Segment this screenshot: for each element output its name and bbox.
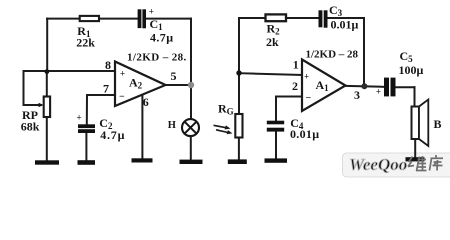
op-amp A2 triangle (115, 62, 166, 107)
node C junction dot (236, 70, 241, 75)
capacitor C5 plates (384, 78, 396, 97)
svg-text:100μ: 100μ (399, 63, 424, 77)
wire: pin 8 lead from node A to op-amp A2 (47, 70, 115, 72)
ground under C4 (265, 158, 288, 162)
wire: right section top rail segment A (239, 17, 266, 19)
speaker B cone (419, 100, 428, 147)
wire: node A down to RP top (46, 71, 48, 97)
wire: A1 output pin 3 to C5 (346, 85, 385, 88)
svg-text:0.01μ: 0.01μ (331, 18, 359, 32)
wire: pin 1 lead from node C to op-amp A1 (239, 73, 302, 75)
wire: top rail from C3 to right corner (328, 17, 365, 19)
wire: C2 bottom to ground (85, 133, 87, 160)
svg-text:0.01μ: 0.01μ (290, 127, 319, 141)
wire: top rail between R2 and C3 (286, 17, 319, 19)
ground under RG (228, 159, 247, 164)
svg-text:+: + (149, 6, 154, 16)
resistor R2 body (266, 14, 287, 21)
potentiometer RP body (44, 97, 50, 118)
resistor R1 body (80, 16, 99, 21)
wire: node B down to lamp H (190, 85, 192, 120)
wire: right vertical of feedback loop down to node B (190, 19, 192, 85)
photoresistor RG body (235, 114, 242, 138)
wire: top rail between R1 and C1 (99, 18, 138, 20)
wire: speaker bottom to ground (414, 139, 416, 158)
wire: pin 2 corner down to C4 (275, 97, 277, 121)
wire: RP wiper into box (24, 104, 42, 106)
wire: RG bottom to ground (238, 137, 240, 159)
wire: lamp H to ground (190, 136, 192, 160)
wire: corner down to speaker top (414, 87, 416, 106)
light arrow 1 from lamp to RG (214, 125, 231, 129)
wire: left vertical from top rail to node A (46, 19, 48, 71)
wire: top rail from C1 to right corner (146, 18, 191, 20)
wire: RP wiper vertical (23, 71, 25, 105)
wire: RP bottom to ground (46, 117, 48, 160)
ground under C2 (78, 160, 96, 165)
svg-text:+: + (376, 87, 381, 97)
svg-text:5: 5 (171, 69, 177, 83)
wire: pin 6 from A2 bottom edge to ground (141, 94, 143, 158)
svg-text:+: + (120, 69, 125, 79)
ground under lamp H (180, 160, 203, 164)
node B junction dot (gray) (188, 82, 194, 88)
ground under RP (35, 160, 59, 164)
svg-text:B: B (434, 117, 442, 131)
potentiometer RP wiper arrowhead (39, 103, 44, 107)
speaker B driver rectangle (412, 107, 420, 140)
svg-text:1/2KD – 28.: 1/2KD – 28. (127, 52, 187, 64)
wire: C4 bottom to ground (275, 132, 277, 159)
svg-text:WeeQoo: WeeQoo (349, 155, 407, 174)
capacitor C2 plates (78, 124, 95, 133)
capacitor C3 plates (319, 10, 328, 27)
svg-text:22k: 22k (76, 35, 95, 49)
lamp H circle (182, 119, 199, 136)
svg-text:C5: C5 (400, 49, 414, 64)
svg-text:3: 3 (354, 88, 360, 102)
svg-text:2k: 2k (266, 35, 279, 49)
svg-text:H: H (168, 120, 176, 131)
wire: pin 7 corner down to C2 (86, 95, 88, 124)
svg-text:+: + (304, 72, 309, 82)
lamp H cross (185, 122, 197, 134)
svg-text:4.7μ: 4.7μ (150, 31, 173, 45)
svg-text:RG: RG (218, 101, 234, 116)
capacitor C1 plates (138, 9, 146, 28)
svg-text:1/2KD – 28: 1/2KD – 28 (306, 49, 359, 61)
svg-text:C3: C3 (329, 3, 343, 18)
svg-text:−: − (119, 92, 125, 103)
wire: left section top rail segment A (47, 18, 80, 20)
wire: feedback vertical from top rail to node D (363, 18, 365, 86)
svg-text:6: 6 (143, 95, 149, 109)
svg-text:4.7μ: 4.7μ (100, 128, 125, 142)
wire: node C down to RG top (238, 73, 240, 114)
svg-text:8: 8 (105, 58, 111, 72)
node A junction dot (45, 69, 50, 74)
svg-text:2: 2 (292, 79, 298, 93)
wire: right section left vertical to node C (238, 18, 240, 73)
svg-text:1: 1 (293, 58, 299, 72)
watermark glyph ku (430, 155, 444, 171)
watermark glyph wei (408, 156, 427, 171)
svg-text:−: − (306, 93, 312, 104)
wire: A2 output pin 5 to node B (166, 84, 192, 86)
watermark box (343, 153, 450, 177)
wire: pin 2 lead to op-amp A1 (276, 96, 302, 98)
wire: C5 to speaker corner (396, 86, 415, 88)
wire: RP wiper horizontal from node A going left (24, 70, 48, 72)
light arrow 2 from lamp to RG (216, 130, 233, 134)
ground under pin 6 (132, 158, 153, 162)
op-amp A1 triangle (302, 60, 346, 112)
svg-text:68k: 68k (21, 120, 40, 134)
svg-text:7: 7 (103, 82, 109, 96)
svg-text:+: + (77, 113, 82, 123)
ground under speaker (406, 157, 425, 161)
node D junction dot (361, 83, 367, 89)
wire: pin 7 lead to op-amp A2 (87, 94, 115, 96)
capacitor C4 plates (267, 121, 284, 132)
